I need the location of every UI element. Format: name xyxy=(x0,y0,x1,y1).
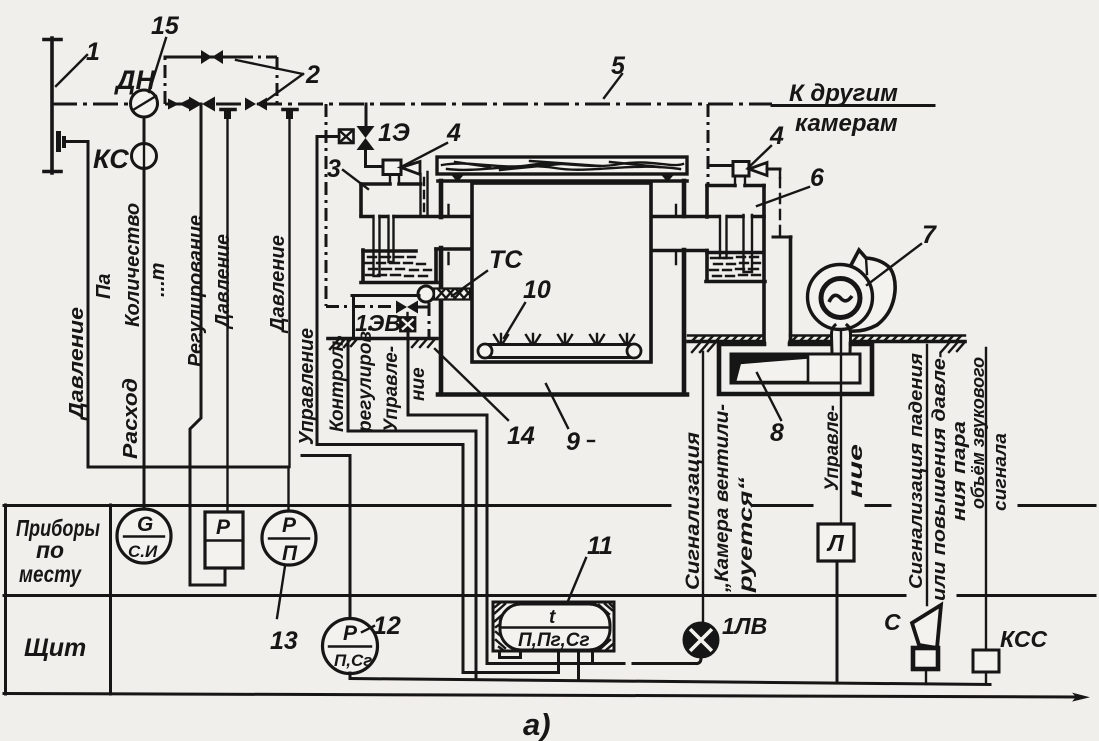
pressure tap 1 on line: bar xyxy=(221,108,235,112)
siren stub to bus xyxy=(925,669,927,684)
svg-text:Па: Па xyxy=(93,273,115,299)
svg-text:9: 9 xyxy=(566,428,580,456)
svg-text:Регулирование: Регулирование xyxy=(185,215,207,367)
1ЭВ impulse dash-dot xyxy=(326,305,396,308)
bell КСС box xyxy=(973,650,999,672)
branch from main line to chamber exhaust (dash-dot) xyxy=(707,104,710,186)
pipe 10 right end cap xyxy=(627,344,641,358)
svg-text:КС: КС xyxy=(93,144,129,174)
ground line right: bottom line xyxy=(688,340,965,344)
volute notch xyxy=(866,258,867,274)
instrument 12 stub xyxy=(349,673,352,678)
valve 4 right: feed stub from box top xyxy=(735,176,745,186)
svg-text:К другим: К другим xyxy=(789,80,898,107)
chamber outer left wall (with duct opening) xyxy=(439,181,444,217)
stub from valve 4 box into box 3 xyxy=(390,175,399,185)
lid seal wedge left xyxy=(450,174,465,183)
leader 4 left xyxy=(403,143,447,166)
seal pipe right-2 (long) xyxy=(744,215,753,272)
svg-text:Давление: Давление xyxy=(212,234,234,330)
leader 3 xyxy=(343,170,368,189)
chamber outer bottom xyxy=(438,392,687,397)
drop pipe from valve 4 into box 3 xyxy=(421,172,428,215)
chamber top flange line xyxy=(438,179,687,183)
1ЭВ dash-dot to ground xyxy=(418,303,429,338)
arrowhead of bottom rule xyxy=(1072,693,1090,702)
svg-text:Давление: Давление xyxy=(66,307,88,421)
svg-text:камерам: камерам xyxy=(795,110,898,137)
control bundle line Управление (from 1Э) xyxy=(317,445,463,673)
svg-text:Давление: Давление xyxy=(267,235,289,334)
branch to instrument 12 xyxy=(302,456,350,619)
pressure tap bracket on item 1 xyxy=(56,131,61,152)
damper frame divider xyxy=(807,356,809,383)
fan 7 volute scroll xyxy=(850,250,895,331)
svg-text:месту: месту xyxy=(19,561,82,587)
duct chamber to tank bottom edge xyxy=(653,249,707,253)
electric impulse dash-dot from main line at x326 xyxy=(325,104,328,306)
signal line Камера вентилируется xyxy=(702,352,704,622)
flow line (Расход) down to G meter xyxy=(143,168,146,510)
1ЭВ actuator box xyxy=(401,318,416,332)
svg-text:или повышения давле-: или повышения давле- xyxy=(929,351,949,601)
table left border xyxy=(4,505,7,694)
table column divider xyxy=(109,505,112,694)
svg-text:Р: Р xyxy=(282,514,297,537)
leader 7 xyxy=(867,244,921,285)
leader ТС xyxy=(452,271,487,296)
svg-text:П: П xyxy=(282,542,298,565)
svg-text:по: по xyxy=(36,537,64,563)
svg-text:„Камера вентили-: „Камера вентили- xyxy=(712,404,733,593)
item 1 bottom cap xyxy=(44,170,61,174)
svg-text:Управле-: Управле- xyxy=(381,346,402,432)
box 6 left wall xyxy=(705,186,709,218)
pipe stand item 1 xyxy=(50,38,54,173)
1ЭВ valve stem xyxy=(406,313,408,318)
valve 1Э (vertical bowtie) xyxy=(357,126,375,150)
regulation impulse line from tap 1 xyxy=(226,119,228,512)
valve 4 cone (right) xyxy=(749,163,767,176)
regulation control line from valve outlet xyxy=(190,104,225,585)
ground line left segment xyxy=(328,337,437,341)
recorder P box xyxy=(205,512,243,568)
link to exhaust duct wall xyxy=(773,236,791,239)
chamber outer right wall (with duct opening) xyxy=(682,181,687,216)
right water tank top edge xyxy=(707,251,763,255)
svg-text:14: 14 xyxy=(507,422,535,450)
tank wire to inner bus xyxy=(463,653,559,673)
DN diagonal chord xyxy=(133,96,156,110)
svg-text:регулиров.: регулиров. xyxy=(355,326,376,433)
lamp stub to bus xyxy=(697,658,701,664)
pipe 1Э to valve 4 xyxy=(366,150,384,167)
fan outlet stem xyxy=(831,325,850,353)
dash centerline of drop pipe xyxy=(423,178,425,212)
svg-text:Количество: Количество xyxy=(122,203,144,327)
box 6 bottom edge with pipe openings xyxy=(707,215,764,219)
right water tank bottom xyxy=(706,280,765,284)
ground hatch ticks left xyxy=(330,339,435,349)
wire from bracket to pressure line xyxy=(66,140,88,143)
steam distribution pipe 10: tube xyxy=(486,345,633,358)
wire DN to KC xyxy=(143,117,146,144)
1ЭВ enclosure left wall xyxy=(352,296,355,339)
dot after 9 xyxy=(588,440,594,442)
panel table top rule xyxy=(4,504,1095,507)
underground duct inner cavity xyxy=(731,354,860,383)
bell signal riser xyxy=(985,348,987,650)
underground duct outer box xyxy=(719,344,872,394)
bypass top run xyxy=(165,56,240,59)
branch to valve 1Э xyxy=(365,104,368,126)
panel table middle rule xyxy=(4,594,1095,597)
valve 4 actuator box (left) xyxy=(383,160,401,175)
main line valve right (item 2) xyxy=(245,98,267,111)
leader 15 xyxy=(149,38,166,92)
svg-text:Расход: Расход xyxy=(120,378,142,459)
lid seal wedge right xyxy=(660,174,675,183)
dashed drop from valve 4 right xyxy=(779,169,781,178)
fan outer circle xyxy=(808,265,873,330)
signal lamp 1ЛВ xyxy=(684,623,718,657)
leader 11 xyxy=(568,558,586,601)
water tank right wall xyxy=(434,249,438,282)
box 3 bottom edge / duct top edge with pipe openings xyxy=(361,215,470,219)
pressure line horizontal run to P/P instrument xyxy=(88,466,288,469)
motor tilde xyxy=(829,295,852,302)
right water tank left wall xyxy=(705,251,709,282)
leader 4 right xyxy=(748,146,771,168)
instrument 11 capsule xyxy=(500,604,610,650)
ground line right: top line xyxy=(688,334,965,336)
siren С base xyxy=(913,648,938,669)
wire actuator to control line xyxy=(317,135,339,138)
svg-text:15: 15 xyxy=(151,12,180,40)
pressure impulse line (Давление Па) vertical xyxy=(87,142,90,468)
KC vertical diameter xyxy=(143,144,145,168)
svg-text:П,Пг,Сг: П,Пг,Сг xyxy=(518,630,590,651)
flow nozzle DN circle xyxy=(131,90,158,117)
temperature sensor TC bulb xyxy=(418,286,434,302)
ground hatch ticks below right line ends xyxy=(692,343,964,352)
tap 2 body xyxy=(286,111,293,119)
main signal bus xyxy=(350,679,990,685)
lid wood grain xyxy=(442,162,683,166)
panel gauge 12 circle xyxy=(323,619,378,674)
svg-text:5: 5 xyxy=(611,52,626,80)
fan motor circle xyxy=(821,279,860,318)
valve 4 cone (left) xyxy=(401,162,420,175)
svg-text:ние: ние xyxy=(846,443,867,498)
svg-text:1Э: 1Э xyxy=(378,119,410,147)
svg-text:6: 6 xyxy=(810,164,825,192)
svg-text:3: 3 xyxy=(327,155,341,183)
svg-text:t: t xyxy=(549,607,556,628)
Управление line from 1Э down xyxy=(316,137,319,445)
svg-text:КСС: КСС xyxy=(1000,626,1047,652)
pipe from valve 4 right xyxy=(767,168,780,171)
1ЭВ valve bowtie xyxy=(396,301,418,314)
svg-text:Щит: Щит xyxy=(24,634,86,662)
svg-text:...т: ...т xyxy=(147,263,169,297)
seal pipe right-1 (short) xyxy=(720,216,727,258)
svg-text:руется“: руется“ xyxy=(736,476,757,593)
svg-text:1: 1 xyxy=(86,38,100,66)
control bundle line Контроль регулирования xyxy=(348,339,476,455)
svg-text:1ЭВ: 1ЭВ xyxy=(355,310,401,336)
bus under tank 11 to lamp xyxy=(487,662,697,665)
pipe 10 left end cap xyxy=(478,344,492,358)
relay Л box xyxy=(818,524,854,561)
leader 13 xyxy=(277,566,285,618)
box 3 left wall xyxy=(359,184,363,215)
instrument 11 corner hatch xyxy=(495,603,613,650)
svg-text:7: 7 xyxy=(922,221,937,249)
svg-text:Сигнализация: Сигнализация xyxy=(683,432,704,590)
flow meter G circle xyxy=(117,509,171,563)
leaders 2 xyxy=(236,60,303,103)
svg-text:ние: ние xyxy=(408,367,429,401)
chamber bottom edge extension left xyxy=(438,393,488,397)
leader 8 xyxy=(757,373,781,420)
U loop under capsule xyxy=(500,651,521,658)
svg-text:Р: Р xyxy=(216,516,231,539)
exhaust header box 6 xyxy=(707,184,764,188)
svg-text:8: 8 xyxy=(770,419,784,447)
svg-text:1ЛВ: 1ЛВ xyxy=(722,613,767,639)
water tank bottom xyxy=(361,281,437,285)
feed line from branch to valve 4 right xyxy=(708,164,733,167)
siren С horn xyxy=(912,605,941,648)
steam seal box 3 top edge xyxy=(361,182,421,186)
tank wire to lamp bus xyxy=(591,653,594,663)
duct chamber to box 6 top edge xyxy=(653,215,706,219)
panel table bottom rule with arrow xyxy=(4,694,1078,698)
leader 14 xyxy=(435,349,508,420)
svg-text:Р: Р xyxy=(343,622,358,645)
svg-text:П,Сг: П,Сг xyxy=(334,651,372,670)
capsule divider xyxy=(500,626,610,628)
svg-text:13: 13 xyxy=(270,627,298,655)
bypass valve (item 2) xyxy=(201,50,223,64)
TC hatched stem xyxy=(434,289,470,300)
main line valve small xyxy=(168,99,190,110)
exhaust duct to fan: right wall xyxy=(789,237,793,342)
valve 4 actuator box (right) xyxy=(733,162,749,177)
svg-text:10: 10 xyxy=(523,276,551,304)
tap 1 body xyxy=(224,111,231,119)
leader 10 xyxy=(504,303,525,338)
chamber inner box (item 9) xyxy=(472,183,651,362)
duct bottom edge to chamber xyxy=(436,247,470,251)
chamber lid outline xyxy=(437,157,687,174)
pressure impulse line from tap 2 xyxy=(288,119,290,467)
control line from fan (Управление) xyxy=(840,330,842,524)
siren signal riser xyxy=(926,345,928,605)
item 1 top cap xyxy=(44,38,61,42)
ground hatch between lines xyxy=(692,336,961,341)
pressure gauge Р/П circle xyxy=(262,511,316,565)
svg-text:ния пара: ния пара xyxy=(949,421,969,521)
svg-text:12: 12 xyxy=(373,612,401,640)
bypass right riser (dash-dot) xyxy=(276,57,279,104)
seal pipe 1 (long) into water xyxy=(374,216,380,276)
svg-text:Сигнализация падения: Сигнализация падения xyxy=(906,353,926,589)
1ЭВ enclosure top xyxy=(352,294,419,297)
svg-text:сигнала: сигнала xyxy=(990,433,1010,511)
wall weep stubs left xyxy=(447,205,449,264)
box 6 right wall continuing to tank bottom xyxy=(762,186,766,343)
bypass left riser (dash-dot) xyxy=(164,57,167,104)
water tank top edge xyxy=(363,249,416,253)
steam jet tufts xyxy=(494,334,634,343)
wall weep stubs right xyxy=(675,205,677,264)
pressure tap 2 on line: bar xyxy=(283,108,297,112)
main line valve large xyxy=(189,97,215,112)
instrument 11 outer frame xyxy=(493,602,614,651)
svg-text:С: С xyxy=(884,609,901,635)
leader 9 xyxy=(546,384,568,428)
svg-text:4: 4 xyxy=(446,119,461,147)
bypass top run dash-dot part xyxy=(240,56,277,59)
leader 12 xyxy=(362,626,374,632)
water hatch left tank xyxy=(365,257,431,276)
svg-text:Управление: Управление xyxy=(296,328,318,445)
svg-text:2: 2 xyxy=(305,61,320,89)
leader 5 xyxy=(604,74,622,98)
svg-text:G: G xyxy=(137,513,153,536)
water tank left wall xyxy=(361,250,365,282)
X in actuator box xyxy=(340,131,352,142)
actuator box of 1Э xyxy=(339,130,354,144)
svg-text:ТС: ТС xyxy=(489,246,523,274)
leader 6 xyxy=(757,187,809,206)
water hatch right tank xyxy=(710,257,760,276)
tank wire to main bus xyxy=(577,653,580,678)
svg-text:С.И: С.И xyxy=(128,542,158,561)
control bundle line from 1ЭВ actuator xyxy=(408,331,487,663)
relay Л stub to bus xyxy=(836,561,839,682)
seal pipe 2 (short) into water xyxy=(389,216,394,262)
svg-text:а): а) xyxy=(523,707,551,741)
leader 1 xyxy=(56,55,87,86)
svg-text:Л: Л xyxy=(826,530,845,556)
main steam line 5 (dash-dot) xyxy=(52,103,772,106)
KC instrument circle xyxy=(132,144,157,169)
svg-text:11: 11 xyxy=(587,532,613,560)
black plenum left part xyxy=(731,354,809,384)
bell stub to bus xyxy=(985,672,987,684)
damper plate 8 xyxy=(735,358,808,383)
line from junction down to P/P circle xyxy=(287,467,289,511)
